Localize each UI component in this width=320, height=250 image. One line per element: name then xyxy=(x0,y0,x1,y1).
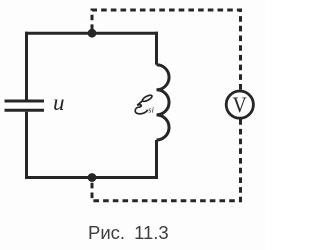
capacitor C (plates), label u xyxy=(5,101,45,110)
inductor L (3 bumps, bulge right) xyxy=(157,65,170,140)
svg-text:V: V xyxy=(233,92,247,118)
svg-text:si: si xyxy=(148,105,154,115)
wire: dashed measurement lead, bottom run (voltmeter to node) xyxy=(92,119,241,201)
junction dot (bottom node) xyxy=(88,173,97,182)
label EMF script-E si (self-induction emf) xyxy=(135,94,154,115)
svg-text:u: u xyxy=(53,90,65,115)
wire: bottom horizontal of solid loop xyxy=(25,176,158,179)
voltmeter V (circle + letter) xyxy=(226,91,253,118)
wire: dashed measurement lead, top run (node to voltmeter) xyxy=(92,10,241,90)
wire: right vertical upper (to inductor) xyxy=(155,32,158,65)
wire: left vertical upper (to capacitor top plate) xyxy=(25,32,28,100)
caption Fig. 11.3 xyxy=(88,222,169,244)
wire: right vertical lower (inductor to bottom wire) xyxy=(155,140,158,179)
wire: top horizontal of solid loop xyxy=(25,32,158,35)
junction dot (top node) xyxy=(88,29,97,38)
wire: left vertical lower (capacitor bottom plate to bottom wire) xyxy=(25,112,28,179)
